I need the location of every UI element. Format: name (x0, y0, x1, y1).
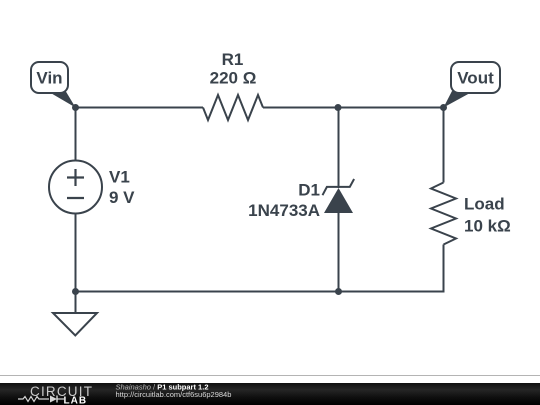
wire top: D1 junction to Vout node (338, 107, 444, 109)
value 9 V (109, 188, 135, 207)
wire top: R1 to D1 junction (263, 107, 338, 109)
node: bottom ground junction (72, 288, 79, 295)
wire right: Load to bottom wire (443, 245, 445, 292)
wire right: Vout node to Load (443, 108, 445, 183)
net label Vout (444, 62, 501, 108)
svg-text:Vout: Vout (457, 69, 494, 88)
net label Vin (31, 62, 76, 108)
wire left: Vin node to V1 (75, 108, 77, 162)
node: D1 top junction (335, 104, 342, 111)
wire mid: D1 junction to D1 cathode (338, 108, 340, 189)
svg-text:D1: D1 (298, 181, 320, 200)
svg-text:10 kΩ: 10 kΩ (464, 217, 511, 236)
svg-text:1N4733A: 1N4733A (248, 201, 320, 220)
value 1N4733A (248, 201, 320, 220)
footer bar (0, 383, 540, 405)
wire left: V1 to ground junction (75, 214, 77, 292)
svg-text:LAB: LAB (64, 396, 88, 405)
label R1 (222, 50, 244, 69)
wire top: Vin node to R1 (76, 107, 204, 109)
label Load (464, 195, 505, 214)
CircuitLab logo wordmark CIRCUIT (30, 384, 93, 399)
node: Vout junction (440, 104, 447, 111)
CircuitLab logo mini diode (50, 396, 64, 403)
svg-text:Load: Load (464, 195, 505, 214)
svg-text:http://circuitlab.com/ctf6su6p: http://circuitlab.com/ctf6su6p2984b (116, 390, 232, 399)
svg-text:Vin: Vin (36, 69, 62, 88)
separator line (0, 375, 540, 376)
node: Vin junction (72, 104, 79, 111)
footer author / title text (116, 382, 209, 391)
bottom wire (76, 290, 444, 292)
resistor R1 (203, 95, 263, 120)
label V1 (109, 168, 130, 187)
ground (53, 292, 97, 336)
CircuitLab logo mini resistor (18, 397, 49, 402)
svg-text:220 Ω: 220 Ω (210, 69, 257, 88)
value 10 kΩ (464, 217, 511, 236)
footer url text (116, 390, 232, 399)
resistor Load (431, 183, 456, 245)
svg-text:R1: R1 (222, 50, 244, 69)
wire mid: D1 anode to bottom junction (338, 213, 340, 292)
label D1 (298, 181, 320, 200)
zener diode D1 (323, 179, 355, 213)
value 220 Ω (210, 69, 257, 88)
svg-text:9 V: 9 V (109, 188, 135, 207)
CircuitLab logo wordmark LAB (64, 396, 88, 405)
voltage source V1 (49, 161, 102, 214)
svg-text:V1: V1 (109, 168, 130, 187)
node: bottom D1 junction (335, 288, 342, 295)
